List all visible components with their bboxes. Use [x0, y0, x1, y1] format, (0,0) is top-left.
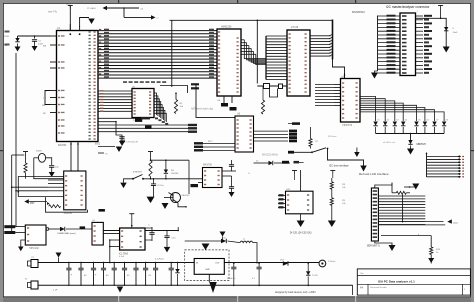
svg-text:TL431: TL431	[312, 275, 319, 277]
svg-text:C5 10u: C5 10u	[157, 185, 165, 187]
diode D12	[283, 261, 288, 265]
bus bar left of U3	[265, 36, 267, 80]
wire LED common	[376, 133, 445, 135]
svg-text:80C552: 80C552	[58, 144, 67, 147]
crystal Y1	[38, 153, 45, 162]
connector P1 power	[31, 260, 38, 268]
capacitor C6	[120, 139, 125, 141]
IC U12 eeprom 24C02	[286, 191, 314, 214]
LED D10	[60, 227, 65, 231]
power arrow D11	[220, 232, 226, 237]
wires U1 left pins	[50, 35, 57, 37]
svg-text:MAX232 (MAX): MAX232 (MAX)	[262, 154, 278, 157]
wires U5 outputs	[154, 93, 157, 115]
svg-text:GND: GND	[205, 269, 210, 271]
inductor L1	[240, 241, 253, 243]
ground	[119, 141, 125, 146]
wires J1 right pins	[416, 15, 424, 17]
wire icl feed	[109, 262, 111, 264]
resistor R4	[49, 205, 61, 208]
wires J2 long pins	[378, 221, 443, 223]
resistor R7	[309, 139, 312, 147]
capacitor C3	[49, 165, 54, 167]
wire	[145, 230, 178, 232]
ground	[328, 221, 336, 228]
power bar	[330, 170, 335, 172]
ground	[49, 172, 55, 177]
svg-text:680uF 6v: 680uF 6v	[227, 278, 235, 280]
wires U2 bottom pins	[223, 96, 225, 103]
capacitor C2	[32, 39, 37, 41]
svg-text:P1.0/AD0: P1.0/AD0	[87, 7, 97, 10]
diode D1	[15, 38, 19, 42]
svg-text:D1: D1	[377, 120, 379, 122]
power symbol VCC top-left	[68, 5, 73, 7]
power bar	[438, 5, 443, 7]
power arrow	[412, 184, 419, 190]
connector J1	[400, 13, 416, 76]
wires U4 outputs to LEDs	[360, 97, 376, 122]
svg-text:designed by mark stevens, tech: designed by mark stevens, tech. c 2003	[275, 291, 316, 294]
wire J2 top	[375, 183, 392, 188]
switch S1 reset	[132, 178, 134, 180]
IC U10 battery RAM	[64, 171, 86, 210]
wires U3 left pins	[266, 35, 287, 37]
resistor R5	[149, 161, 152, 177]
svg-text:0.1uF: 0.1uF	[119, 256, 125, 258]
wire J2 bottom	[375, 241, 392, 245]
pullup resistors	[331, 178, 333, 182]
svg-text:OUT: OUT	[215, 263, 220, 265]
wire rtc row3	[16, 190, 48, 192]
power bar VCC	[148, 151, 153, 153]
capacitor C8	[444, 27, 448, 31]
wire	[381, 235, 431, 237]
power flag	[116, 147, 123, 153]
wire	[198, 182, 203, 184]
svg-text:D6: D6	[426, 120, 428, 122]
wire rtc rows	[18, 175, 48, 177]
wire loop around U10	[46, 197, 88, 212]
node arrow left	[103, 6, 108, 10]
wires J1 left pins	[378, 15, 401, 17]
wires G1 to U13	[103, 230, 119, 232]
wire diode feed	[185, 240, 221, 242]
ground	[443, 47, 450, 53]
svg-text:J 5Vout: J 5Vout	[328, 260, 336, 263]
wire	[12, 154, 25, 156]
svg-text:A RESET: A RESET	[133, 170, 143, 173]
diode D14	[177, 263, 179, 270]
wire rtc row2	[12, 186, 48, 188]
wires U11 right	[222, 170, 236, 172]
power bar	[292, 170, 297, 172]
wire osc loop	[34, 157, 39, 159]
svg-text:D2: D2	[387, 120, 389, 122]
svg-text:74HC573: 74HC573	[342, 124, 353, 127]
svg-text:D3: D3	[396, 120, 398, 122]
svg-text:27C48: 27C48	[291, 26, 299, 29]
wire ALE vertical	[171, 20, 173, 87]
svg-text:ICL7660: ICL7660	[119, 252, 129, 255]
net label	[191, 184, 199, 187]
IC U11 MAX700	[203, 168, 223, 188]
svg-text:1N4148: 1N4148	[171, 173, 179, 175]
label net names bus2	[100, 90, 104, 91]
bus labels row	[123, 81, 127, 83]
net labels left	[4, 225, 15, 228]
big loop wire top	[170, 19, 334, 21]
resistor R3	[261, 100, 264, 114]
diode D11	[221, 239, 226, 243]
svg-text:10uF: 10uF	[38, 43, 44, 45]
resistor R15	[396, 191, 406, 194]
svg-text:MSC8P210: MSC8P210	[352, 11, 365, 14]
wire top pins U1	[69, 24, 71, 31]
svg-text:1 uF: 1 uF	[53, 290, 58, 292]
wire box U6 feed	[196, 84, 235, 117]
IC U4 latch 74HC573	[341, 79, 361, 123]
connector P2 power	[31, 281, 38, 289]
IC U6 interface	[235, 116, 254, 152]
power arrow	[202, 244, 210, 251]
net labels below U5	[155, 118, 158, 120]
ground	[164, 247, 171, 253]
svg-text:74HC132: 74HC132	[29, 248, 39, 250]
svg-text:SW boot: SW boot	[328, 135, 337, 138]
wire GND rail	[38, 284, 353, 286]
svg-text:I2C master/analyser connector: I2C master/analyser connector	[386, 5, 430, 9]
capacitor C7	[229, 164, 234, 166]
wire	[18, 35, 51, 37]
net arrow cc	[151, 15, 156, 19]
title block	[357, 269, 470, 295]
connector J3 out	[319, 260, 326, 267]
svg-text:ADP wired watch dog: ADP wired watch dog	[191, 108, 214, 111]
svg-text:MBZ5V6: MBZ5V6	[417, 143, 427, 146]
svg-text:10uF: 10uF	[453, 32, 459, 34]
ground	[389, 245, 396, 251]
ground	[162, 203, 169, 209]
net label stack	[292, 122, 300, 125]
wires U4 inputs	[315, 84, 334, 86]
power arrow rail	[56, 253, 62, 258]
svg-text:ISA PC Data analyzer v1.1: ISA PC Data analyzer v1.1	[378, 279, 415, 283]
zener D9	[408, 140, 412, 144]
wire loop	[270, 89, 278, 98]
ground	[297, 221, 305, 228]
wire top right loop	[416, 18, 447, 46]
ground regulator	[208, 274, 210, 282]
wire left common	[377, 16, 379, 72]
wire bus bar to latch U4	[333, 60, 345, 79]
IC U1 microcontroller	[57, 31, 99, 142]
capacitor C13	[164, 235, 169, 237]
power bar	[23, 151, 28, 153]
wire U4 top pin	[344, 73, 346, 79]
svg-text:C0,5: C0,5	[453, 222, 458, 224]
bus address data lines	[98, 30, 217, 32]
wire	[107, 7, 139, 9]
wires J2 right pins	[378, 195, 425, 197]
wires U3 right pins to bus bar	[310, 35, 331, 37]
switch S2	[311, 151, 313, 153]
wires U1 to U10	[70, 152, 72, 171]
svg-text:HM62256: HM62256	[221, 26, 232, 29]
ground gate	[21, 240, 26, 247]
IC U7 gate	[25, 225, 46, 245]
IC U2 memory	[217, 29, 241, 96]
svg-text:DS1230: DS1230	[64, 213, 73, 215]
wires mcu to reset	[98, 146, 115, 148]
svg-text:1uF/100nOB: 1uF/100nOB	[126, 142, 138, 144]
power arrow	[428, 258, 434, 263]
wires U6 left pins	[196, 143, 235, 145]
power arrow i2c	[360, 166, 367, 172]
capacitor C5	[151, 183, 156, 185]
wire junction loop	[116, 122, 122, 141]
net arrow RST	[24, 199, 29, 203]
wires U6 right net labels	[254, 130, 289, 132]
resistor R2	[174, 100, 177, 114]
capacitor C12	[149, 232, 154, 234]
svg-text:C-: C-	[248, 173, 251, 175]
svg-text:24 C01 (24 C02 OK): 24 C01 (24 C02 OK)	[290, 231, 312, 234]
capacitor C9	[229, 186, 234, 188]
wire	[328, 149, 364, 166]
svg-text:I2C bus interface: I2C bus interface	[329, 164, 349, 168]
regulator U14 dashed box	[185, 250, 229, 281]
wires U1 bottom pins	[70, 142, 72, 153]
power flag arrow	[80, 18, 89, 28]
svg-text:D7: D7	[436, 120, 438, 122]
svg-text:1: 1	[417, 11, 418, 13]
bus bar right of U3	[332, 20, 334, 60]
power arrow latch	[356, 148, 358, 153]
ground	[410, 146, 412, 149]
wires U10 left pins	[48, 175, 64, 177]
resistor R16	[430, 247, 433, 255]
wire	[253, 243, 257, 264]
IC G1 gate	[92, 222, 103, 245]
wires U2 right verticals	[241, 39, 245, 41]
svg-text:Document Number: Document Number	[370, 286, 387, 289]
svg-text:wire 74c: wire 74c	[48, 11, 58, 14]
resistor R1	[24, 163, 27, 173]
power bar U13	[129, 213, 134, 215]
capacitor C17	[258, 264, 260, 268]
wire	[49, 228, 60, 230]
regulator U14	[194, 259, 224, 275]
ground	[32, 46, 38, 51]
wire rxd txd	[160, 86, 188, 94]
LED row D1-D8	[373, 122, 377, 126]
ground	[147, 197, 155, 204]
resistor network RP1	[426, 153, 428, 178]
left edge specks	[5, 31, 10, 33]
crystal Y2 area	[257, 85, 287, 87]
ground	[229, 192, 235, 197]
transistor Q1	[171, 193, 181, 203]
svg-text:MAX700: MAX700	[203, 164, 213, 167]
svg-text:all LEDs red: all LEDs red	[383, 141, 396, 144]
capacitor C16	[233, 264, 235, 268]
diode D5	[254, 162, 269, 164]
zener D13	[307, 264, 309, 272]
wire	[256, 20, 258, 83]
svg-text:SER MKT-S: SER MKT-S	[367, 245, 380, 248]
svg-text:WR: WR	[42, 105, 46, 107]
ground	[15, 47, 21, 52]
wire	[45, 91, 50, 105]
svg-text:PWR: PWR	[4, 36, 10, 38]
wire	[143, 178, 203, 180]
svg-text:b: b	[418, 234, 419, 236]
wire	[402, 195, 404, 223]
wire	[430, 255, 432, 264]
wires U1 port1 to U5	[98, 90, 132, 92]
wires U3 to U4 lines	[310, 82, 341, 84]
svg-text:OVERLOAD (over): OVERLOAD (over)	[57, 232, 76, 235]
sheet border frame	[0, 0, 474, 3]
ground	[117, 287, 124, 293]
ground	[375, 71, 378, 73]
svg-text:D8: D8	[446, 120, 448, 122]
IC U13 ICL7660	[120, 228, 145, 250]
wires U12 left pins	[278, 195, 286, 197]
capacitor C4	[119, 136, 124, 138]
IC U3 eprom 27C512	[287, 30, 310, 96]
diode D3	[164, 170, 168, 174]
wire U13 lower pins	[110, 239, 120, 241]
svg-text:8052: 8052	[95, 144, 101, 146]
wire	[69, 6, 71, 31]
wire +9V rail	[38, 262, 319, 264]
capacitor row	[68, 263, 70, 269]
svg-text:KA7033: KA7033	[182, 194, 191, 197]
wire	[178, 203, 186, 207]
net arrow right	[447, 219, 452, 223]
IC U5 latch 74HC573	[132, 89, 154, 118]
connector J2 serial	[371, 188, 378, 241]
wires U1 P3 pins	[98, 117, 150, 119]
svg-text:0.1uF(x5): 0.1uF(x5)	[155, 259, 164, 261]
wires eeprom top	[300, 170, 302, 191]
svg-text:Ref test LCD interface: Ref test LCD interface	[359, 172, 389, 176]
wire	[123, 8, 125, 17]
svg-text:RST: RST	[30, 203, 35, 205]
svg-text:D4: D4	[405, 120, 407, 122]
net label SCL	[294, 162, 304, 164]
wire reset top	[151, 159, 190, 161]
long wire left	[15, 53, 17, 227]
ground	[124, 179, 134, 183]
svg-text:32kHz: 32kHz	[36, 151, 42, 153]
svg-text:OE: OE	[217, 100, 221, 102]
svg-text:D5: D5	[418, 120, 420, 122]
